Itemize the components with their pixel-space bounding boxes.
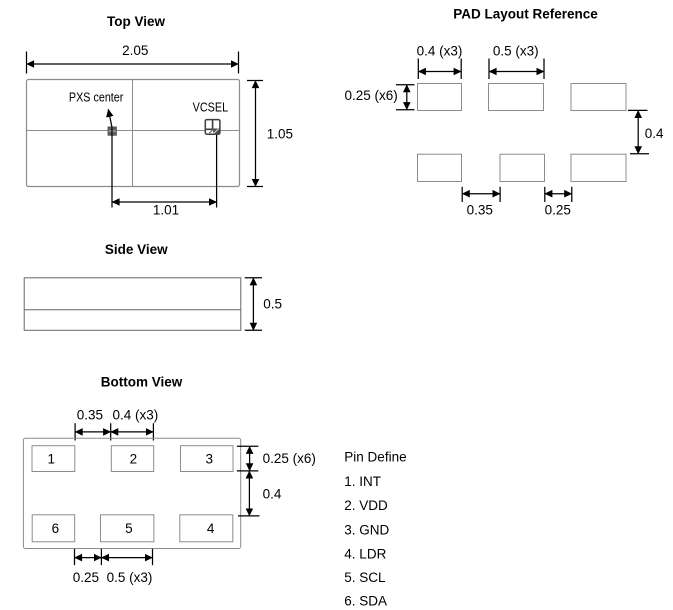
svg-text:PXS center: PXS center: [69, 89, 124, 104]
svg-text:6: 6: [52, 521, 60, 536]
svg-text:4. LDR: 4. LDR: [344, 546, 386, 561]
svg-text:1. INT: 1. INT: [344, 474, 381, 489]
svg-text:Bottom View: Bottom View: [101, 374, 183, 389]
svg-text:0.35: 0.35: [77, 408, 103, 423]
svg-text:0.25: 0.25: [73, 570, 99, 585]
svg-text:0.5 (x3): 0.5 (x3): [493, 44, 539, 59]
svg-text:0.4 (x3): 0.4 (x3): [417, 44, 463, 59]
svg-text:2. VDD: 2. VDD: [344, 498, 388, 513]
svg-text:Top View: Top View: [107, 14, 166, 29]
svg-text:1.05: 1.05: [267, 127, 293, 142]
svg-text:0.25 (x6): 0.25 (x6): [263, 451, 316, 466]
svg-text:0.25 (x6): 0.25 (x6): [345, 88, 398, 103]
svg-text:1: 1: [48, 452, 56, 467]
svg-text:2.05: 2.05: [122, 43, 148, 58]
svg-text:3. GND: 3. GND: [344, 522, 389, 537]
svg-text:5: 5: [125, 521, 133, 536]
svg-text:1.01: 1.01: [153, 203, 179, 218]
svg-text:0.4: 0.4: [645, 126, 664, 141]
svg-text:4: 4: [207, 521, 215, 536]
svg-text:2: 2: [130, 452, 138, 467]
svg-text:0.4 (x3): 0.4 (x3): [113, 408, 159, 423]
svg-text:6. SDA: 6. SDA: [344, 594, 387, 609]
svg-text:VCSEL: VCSEL: [193, 100, 229, 115]
svg-text:Side View: Side View: [105, 242, 168, 257]
svg-text:3: 3: [205, 452, 213, 467]
svg-text:PAD Layout Reference: PAD Layout Reference: [453, 6, 598, 21]
svg-text:0.25: 0.25: [545, 203, 571, 218]
svg-text:0.35: 0.35: [467, 203, 493, 218]
svg-text:0.5: 0.5: [263, 297, 282, 312]
svg-text:0.4: 0.4: [263, 487, 282, 502]
svg-text:0.5 (x3): 0.5 (x3): [107, 570, 153, 585]
svg-text:Pin Define: Pin Define: [344, 450, 406, 465]
svg-text:5. SCL: 5. SCL: [344, 570, 386, 585]
